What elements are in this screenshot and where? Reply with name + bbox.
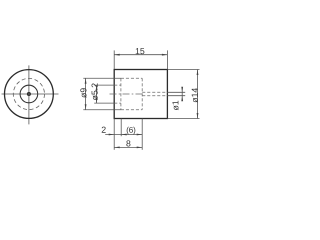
front view: vertical centerline [28,65,30,124]
dimension (6): right arrowhead pointing right [137,134,143,136]
dimension 15: left arrowhead [114,54,120,56]
dimension ø14: top extension line [167,69,199,71]
dimension (6): dimension line [121,134,142,136]
dimension ø1: dimension line [181,87,183,100]
dimension ø5.2: dimension line [96,85,98,103]
front view: horizontal centerline [2,93,59,95]
front view: counterbore circle ø5.2 [20,85,38,103]
dimension 8: left arrowhead [114,147,120,149]
side view: hidden line ø5.2 bore bottom [114,102,121,104]
dimension 15: right arrowhead [162,54,168,56]
dimension ø1: upper arrowhead pointing down [181,87,183,93]
front view: hidden circle ø9 (dashed) [13,78,44,109]
dimension ø14: dimension line [197,70,199,119]
dimension ø5.2: top extension line [94,84,114,86]
dimension 15: left extension line [113,50,115,69]
front view: center hole ø1 [27,92,30,95]
side view: hidden line ø9 bore bottom [121,109,142,111]
dimension ø1: top extension line [167,91,185,93]
dimension ø14: bottom arrowhead [197,113,199,119]
dimension ø9: bottom arrowhead [85,104,87,110]
side view: hidden line ø1 hole top [142,91,167,93]
dimension 15: right extension line [166,50,168,69]
dimension ø14: top arrowhead [197,70,199,76]
dimension ø1: value label [172,101,178,111]
dimension (6): left arrowhead pointing left [121,134,127,136]
dimension ø1: lower arrowhead pointing up [181,96,183,102]
dimension ø5.2: bottom extension line [94,102,114,104]
dimension ø5.2: top arrowhead [96,85,98,91]
dimension 15: value label [136,48,145,54]
side view: hidden line ø9 bore top [121,77,142,79]
dimension (6): value label [127,127,136,135]
dimension 2: tail line outside left [105,134,121,136]
side view: hidden line ø5.2 bore top [114,84,121,86]
side view: horizontal centerline [110,93,144,95]
dimension 2: arrowhead at left face pointing right [109,134,115,136]
side view: hidden line ø1 hole bottom [142,95,167,97]
side view: hidden line step face at depth 2 [120,78,122,110]
dimension ø5.2: value label [92,83,98,100]
dimension 8: right arrowhead [137,147,143,149]
dimension ø9: value label [80,88,86,98]
bottom dimensions: extension line at left face [113,119,115,150]
dimension 15: dimension line [114,54,167,56]
dimension ø9: top arrowhead [85,78,87,84]
dimension ø14: bottom extension line [167,118,199,120]
dimension ø9: bottom extension line [83,109,121,111]
bottom dimensions: extension line at depth 8 [141,119,143,150]
bottom dimensions: extension line at depth 2 [120,119,122,137]
dimension ø5.2: bottom arrowhead [96,98,98,104]
side view: body outline rectangle 15 x ø14 [114,70,167,119]
dimension ø9: top extension line [83,77,121,79]
dimension ø14: value label [192,88,198,103]
dimension 8: dimension line [114,146,142,148]
side view: hidden line bore bottom face at depth 8 [141,78,143,110]
dimension ø1: bottom extension line [167,95,185,97]
dimension 2: value label [102,127,106,133]
dimension ø9: dimension line [85,78,87,110]
dimension 8: value label [126,140,130,146]
front view: outer circle ø14 [5,70,54,119]
